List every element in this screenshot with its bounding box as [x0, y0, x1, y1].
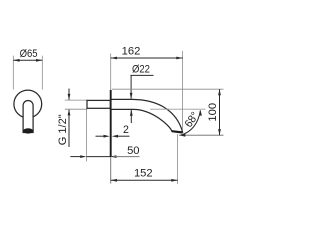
dimension line 2	[96, 135, 130, 138]
dimension line 152	[111, 179, 178, 182]
wall line lower extension	[110, 157, 112, 184]
dimension line G1/2	[68, 89, 71, 148]
wall flange line side view	[110, 90, 112, 157]
svg-text:2: 2	[123, 124, 129, 136]
leader underline Ø22	[130, 74, 153, 76]
extension line Ø65 right	[41, 56, 43, 90]
extension line 162 left (above wall)	[110, 54, 112, 91]
outlet opening front view	[23, 128, 33, 133]
extension line 100 bottom	[179, 134, 224, 136]
leader arrow Ø22 bottom	[130, 110, 133, 123]
angle reference line 68	[150, 108, 206, 110]
svg-text:152: 152	[134, 167, 153, 179]
svg-text:Ø22: Ø22	[132, 64, 150, 76]
svg-text:162: 162	[122, 45, 141, 57]
svg-text:Ø65: Ø65	[20, 49, 38, 61]
angle arc 68	[180, 110, 202, 137]
spout pipe front view	[23, 101, 33, 133]
svg-text:100: 100	[207, 103, 219, 122]
dimension line Ø65	[13, 59, 42, 62]
extension line G1/2 bottom	[65, 108, 88, 110]
extension line 100 top	[112, 88, 224, 90]
extension line 162 right	[182, 51, 184, 131]
extension line Ø65 left	[12, 56, 14, 90]
extension line 152 right	[177, 134, 179, 184]
leader arrow Ø22 top	[130, 75, 133, 99]
wall stub pipe side view	[87, 100, 110, 108]
outlet face side view	[172, 131, 183, 132]
dimension line 50	[70, 155, 139, 158]
svg-text:50: 50	[127, 145, 139, 157]
svg-text:G 1/2": G 1/2"	[57, 114, 69, 145]
extension line 50 left	[86, 110, 88, 162]
dimension line 100	[218, 89, 221, 135]
dimension line 162	[111, 57, 183, 60]
flange circle front view	[14, 90, 42, 118]
extension line G1/2 top	[65, 99, 88, 101]
spout tube side view	[111, 99, 183, 132]
